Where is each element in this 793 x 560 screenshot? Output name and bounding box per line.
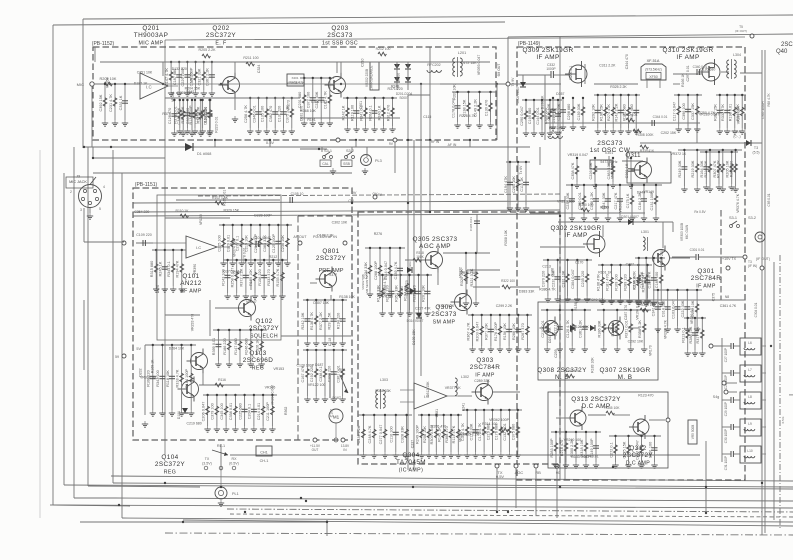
- resistor R102: [215, 201, 223, 205]
- capacitor: [251, 409, 257, 411]
- svg-text:C107: C107: [330, 409, 334, 417]
- svg-text:C292 10K: C292 10K: [628, 340, 644, 344]
- ground: [406, 310, 412, 316]
- resistor: [570, 324, 574, 332]
- junction: [456, 91, 458, 93]
- svg-text:R345 100: R345 100: [641, 303, 656, 307]
- svg-text:C236 10K: C236 10K: [281, 235, 285, 252]
- svg-text:(5.5): (5.5): [753, 151, 760, 155]
- wire rail: [246, 97, 296, 99]
- svg-text:R156 10K: R156 10K: [503, 323, 507, 340]
- junction: [696, 94, 698, 96]
- wire AF in: [136, 242, 153, 244]
- resistor: [193, 110, 197, 118]
- svg-text:D305 IS007: D305 IS007: [516, 86, 520, 103]
- diode D202: [405, 64, 411, 69]
- svg-text:C287 470: C287 470: [624, 305, 628, 320]
- diode D314: [416, 313, 422, 318]
- wire: [104, 84, 106, 120]
- svg-text:R211 100: R211 100: [243, 56, 258, 60]
- ground: [304, 340, 310, 346]
- ground: [732, 128, 738, 134]
- resistor: [630, 196, 634, 204]
- svg-text:C29 100P: C29 100P: [724, 402, 728, 416]
- wire: [522, 75, 524, 82]
- connector J3 MIC JACK: [66, 175, 105, 213]
- junction: [718, 151, 720, 153]
- ground: [353, 126, 359, 132]
- ground: [633, 128, 639, 134]
- capacitor: [593, 199, 599, 201]
- resistor: [575, 166, 579, 174]
- diode D304: [410, 288, 415, 294]
- resistor: [169, 72, 173, 80]
- svg-text:R375: R375: [162, 112, 170, 116]
- junction: [595, 184, 597, 186]
- resistor: [224, 406, 228, 414]
- svg-text:1st SSB OSC: 1st SSB OSC: [322, 40, 358, 46]
- ground: [724, 128, 730, 134]
- junction: [407, 202, 409, 204]
- ground: [569, 346, 575, 352]
- svg-text:C135 100: C135 100: [261, 106, 265, 122]
- transistor Q103b: [178, 377, 199, 402]
- svg-text:D312 15K: D312 15K: [426, 381, 430, 397]
- ground: [599, 298, 605, 304]
- resistor: [181, 111, 185, 119]
- svg-text:C302 10K: C302 10K: [332, 221, 348, 225]
- svg-text:C382 470: C382 470: [269, 106, 273, 122]
- resistor: [637, 277, 641, 285]
- junction: [499, 314, 501, 316]
- resistor: [474, 272, 478, 280]
- transformer L201: [453, 57, 463, 77]
- wire: [458, 395, 472, 397]
- ground: [545, 296, 551, 302]
- terminal AF: [122, 241, 126, 245]
- svg-text:R219 33K: R219 33K: [691, 160, 695, 177]
- wire: [562, 98, 564, 124]
- wire coil column to bus: [705, 441, 707, 513]
- svg-text:(0.5V): (0.5V): [229, 461, 239, 465]
- junction: [465, 252, 467, 254]
- junction: [355, 97, 357, 99]
- ground: [626, 298, 632, 304]
- junction: [124, 83, 126, 85]
- resistor: [194, 72, 198, 80]
- svg-text:AF IN: AF IN: [448, 143, 457, 147]
- wire: [472, 315, 474, 346]
- resistor: [261, 406, 265, 414]
- junction: [245, 259, 247, 261]
- svg-text:R320: R320: [400, 286, 404, 294]
- svg-text:C139 33K: C139 33K: [577, 103, 581, 120]
- svg-text:R69 4.7K: R69 4.7K: [767, 92, 771, 106]
- junction: [274, 97, 276, 99]
- ground: [339, 340, 345, 346]
- wire: [218, 61, 260, 63]
- wire: [620, 265, 622, 298]
- svg-text:SM AMP: SM AMP: [433, 319, 456, 325]
- resistor: [640, 445, 644, 453]
- wire left: [83, 300, 85, 370]
- svg-text:C199 680: C199 680: [528, 108, 532, 124]
- resistor: [286, 238, 290, 246]
- wire Q301 collector: [662, 222, 664, 248]
- wire: [721, 71, 729, 73]
- svg-text:C194 47K: C194 47K: [504, 176, 508, 193]
- svg-text:CH1: CH1: [260, 451, 268, 455]
- svg-text:S3-2: S3-2: [748, 216, 756, 220]
- junction: [263, 259, 265, 261]
- svg-text:C331 1K: C331 1K: [119, 95, 123, 110]
- capacitor: [681, 167, 687, 169]
- svg-text:C218: C218: [328, 338, 332, 346]
- junction: [417, 274, 419, 276]
- resistor: [480, 326, 484, 334]
- svg-text:S3-1: S3-1: [324, 149, 332, 153]
- capacitor C340: [697, 69, 699, 75]
- junction: [575, 431, 577, 433]
- junction: [500, 409, 502, 411]
- label Q308: [537, 367, 587, 381]
- svg-text:VR155: VR155: [382, 294, 393, 298]
- ground: [628, 182, 634, 188]
- ground: [204, 426, 210, 432]
- resistor: [611, 107, 615, 115]
- wire y173: [93, 172, 352, 174]
- ground: [199, 128, 205, 134]
- ground: [389, 126, 395, 132]
- junction: [471, 314, 473, 316]
- svg-text:R164 100P: R164 100P: [185, 369, 189, 388]
- svg-text:D188 2.2K: D188 2.2K: [317, 234, 334, 238]
- junction: [734, 94, 736, 96]
- ground: [433, 452, 439, 458]
- wire rail: [684, 317, 706, 319]
- wire: [236, 260, 238, 293]
- ground: [415, 310, 421, 316]
- svg-text:D301 IS007: D301 IS007: [621, 215, 639, 219]
- wire left bus E: [87, 147, 89, 486]
- wire y213: [530, 212, 645, 214]
- wire rail: [551, 431, 601, 433]
- ground switch: [330, 168, 336, 174]
- svg-text:C210 0.01: C210 0.01: [541, 320, 545, 338]
- wire: [342, 350, 344, 396]
- wire: [234, 98, 236, 110]
- svg-text:R318 4.7K: R318 4.7K: [175, 369, 179, 387]
- capacitor: [488, 329, 494, 331]
- relay RL-4: [330, 368, 348, 398]
- wire: [576, 260, 578, 296]
- svg-text:R147 680: R147 680: [234, 338, 238, 354]
- wire center vertical C: [420, 95, 422, 376]
- svg-text:C361 2.2K: C361 2.2K: [206, 68, 210, 86]
- svg-text:R329 15K: R329 15K: [224, 209, 240, 213]
- svg-text:D120 680: D120 680: [700, 67, 715, 71]
- transistor Q306: [451, 290, 472, 315]
- lamp PL-3: [361, 155, 382, 166]
- wire center vertical A: [407, 95, 409, 470]
- capacitor: [605, 199, 611, 201]
- wire: [701, 318, 703, 350]
- wire: [719, 95, 721, 128]
- svg-text:C301 0.01: C301 0.01: [690, 248, 705, 252]
- junction: [250, 329, 252, 331]
- wire: [283, 98, 285, 128]
- svg-text:D251 47K: D251 47K: [548, 327, 552, 343]
- ground: [582, 346, 588, 352]
- svg-text:5V: 5V: [136, 347, 141, 351]
- wire: [734, 426, 740, 428]
- junction: [646, 264, 648, 266]
- svg-text:90: 90: [556, 470, 561, 475]
- junction on bus: [496, 511, 498, 513]
- ground: [707, 186, 713, 192]
- wire left bus B2: [73, 147, 75, 498]
- svg-text:R371 10K: R371 10K: [485, 323, 489, 340]
- ground: [515, 205, 521, 211]
- junction: [653, 257, 655, 259]
- ground: [258, 361, 264, 367]
- wire: [234, 395, 236, 426]
- ground: [261, 293, 267, 299]
- capacitor: [717, 110, 723, 112]
- svg-text:D206 0.1: D206 0.1: [569, 66, 573, 80]
- svg-text:R196 15K: R196 15K: [599, 104, 603, 121]
- resistor: [302, 95, 306, 103]
- svg-text:R377 2.2K: R377 2.2K: [319, 312, 323, 330]
- svg-text:R326 1K: R326 1K: [255, 339, 259, 354]
- wire: [437, 270, 439, 285]
- junction on bus: [182, 521, 184, 523]
- wire drop 90: [556, 468, 558, 518]
- resistor: [249, 341, 253, 349]
- svg-text:T3: T3: [754, 146, 758, 150]
- svg-text:R155 4.7K: R155 4.7K: [276, 268, 280, 286]
- resistor: [524, 111, 528, 119]
- ground: [192, 128, 198, 134]
- label Q305: [413, 236, 458, 250]
- label Q103: [243, 350, 274, 371]
- wire bottom bus D: [122, 518, 793, 522]
- ground: [641, 215, 647, 221]
- ground: [651, 462, 657, 468]
- wire top-right frame: [508, 34, 793, 37]
- ground: [275, 260, 281, 266]
- svg-text:Q203: Q203: [331, 25, 348, 32]
- wire: [145, 344, 195, 346]
- svg-text:C131 220: C131 220: [277, 106, 281, 122]
- junction: [630, 157, 632, 159]
- junction: [239, 329, 241, 331]
- svg-text:Q307 2SK19GR: Q307 2SK19GR: [600, 367, 651, 374]
- label Q307: [600, 367, 651, 381]
- svg-text:R335 470: R335 470: [412, 285, 416, 301]
- terminal 59: [122, 354, 126, 358]
- wire: [678, 95, 680, 126]
- svg-text:L304: L304: [733, 53, 741, 57]
- ground: [313, 396, 319, 402]
- junction: [173, 99, 175, 101]
- svg-text:C337 15K: C337 15K: [691, 103, 695, 120]
- svg-text:C321 33K: C321 33K: [198, 68, 202, 85]
- junction: [507, 511, 509, 513]
- wire: [481, 315, 483, 346]
- ground: [555, 296, 561, 302]
- svg-text:C361 4.7K: C361 4.7K: [720, 304, 737, 308]
- svg-text:100K: 100K: [416, 255, 424, 259]
- transistor Q313: [566, 406, 586, 430]
- resistor: [581, 107, 585, 115]
- svg-text:C225 100: C225 100: [217, 235, 221, 251]
- junction: [243, 394, 245, 396]
- capacitor C301: [696, 254, 698, 260]
- ground: [676, 126, 682, 132]
- wire: [228, 330, 230, 361]
- wire: [540, 246, 585, 248]
- ground: [636, 300, 642, 306]
- wire mic drop: [91, 86, 93, 147]
- box DC amp section: [548, 392, 668, 468]
- wire right-center vertical 2: [564, 196, 566, 480]
- wire: [186, 100, 188, 128]
- resistor R320: [405, 283, 409, 291]
- ground: [605, 215, 611, 221]
- resistor: [516, 427, 520, 435]
- ground: [581, 215, 587, 221]
- resistor: [383, 429, 387, 437]
- junction on signal path: [220, 83, 222, 85]
- wire: [392, 98, 394, 126]
- diode D203: [394, 77, 400, 82]
- capacitor: [393, 432, 399, 434]
- svg-text:R291 15K: R291 15K: [328, 312, 332, 329]
- ground: [595, 128, 601, 134]
- crystal X201: [287, 74, 304, 86]
- junction: [104, 83, 106, 85]
- wire squelch box bottom: [281, 335, 351, 337]
- junction: [687, 317, 689, 319]
- label Q202: [206, 25, 236, 46]
- junction: [259, 224, 261, 226]
- svg-text:C277 0.047: C277 0.047: [379, 425, 383, 445]
- svg-text:R204 15K: R204 15K: [185, 86, 201, 90]
- wire left bus C: [112, 150, 114, 483]
- svg-text:R123 470: R123 470: [638, 393, 653, 397]
- wire: [612, 95, 614, 128]
- wire: [565, 432, 567, 462]
- wire: [554, 74, 570, 76]
- svg-text:VR240 100: VR240 100: [564, 438, 582, 442]
- ground: [270, 293, 276, 299]
- svg-text:D383 33K: D383 33K: [519, 290, 535, 294]
- wire: [713, 345, 722, 347]
- ground: [473, 300, 479, 306]
- wire rail: [594, 94, 640, 96]
- svg-text:R176 100P: R176 100P: [494, 322, 498, 341]
- wire y218: [165, 217, 230, 219]
- ground: [279, 293, 285, 299]
- wire: [546, 310, 548, 346]
- wire: [379, 248, 381, 291]
- wire: [88, 486, 200, 487]
- svg-text:VR291 10K: VR291 10K: [736, 106, 740, 125]
- wire middle bus 3: [133, 214, 560, 216]
- ground: [243, 293, 249, 299]
- wire: [170, 62, 172, 90]
- svg-text:AN212: AN212: [180, 280, 202, 287]
- junction: [346, 97, 348, 99]
- svg-text:R101 1K: R101 1K: [598, 271, 612, 275]
- capacitor: [593, 446, 599, 448]
- wire: [186, 62, 188, 90]
- ground: [230, 260, 236, 266]
- wire: [191, 100, 193, 130]
- junction: [726, 94, 728, 96]
- wire center vertical D: [429, 47, 431, 212]
- junction: [405, 414, 407, 416]
- svg-text:L8: L8: [748, 395, 752, 399]
- capacitor: [407, 291, 413, 293]
- resistor: [554, 443, 558, 451]
- svg-text:R166 1K: R166 1K: [681, 73, 685, 87]
- svg-text:R116: R116: [218, 378, 226, 382]
- junction: [457, 414, 459, 416]
- wire: [509, 162, 511, 205]
- ground: [257, 260, 263, 266]
- board center outline: [358, 212, 560, 464]
- capacitor: [169, 376, 175, 378]
- junction: [450, 414, 452, 416]
- svg-text:C301 0.01: C301 0.01: [336, 365, 340, 383]
- resistor: [249, 238, 253, 246]
- ground: [206, 130, 212, 136]
- terminal 13.8V IN: [341, 438, 345, 442]
- wire y143: [640, 142, 762, 144]
- wire rail: [452, 91, 496, 93]
- svg-text:C331 10K: C331 10K: [561, 270, 565, 287]
- svg-text:IF AMP: IF AMP: [475, 372, 495, 378]
- wire drop: [214, 140, 216, 147]
- wire: [300, 148, 327, 150]
- capacitor: [652, 448, 658, 450]
- wire rail: [303, 349, 347, 351]
- wire: [223, 225, 225, 260]
- resistor R318: [413, 258, 421, 262]
- junction: [271, 394, 273, 396]
- transistor Q203: [325, 73, 346, 98]
- junction: [616, 309, 618, 311]
- resistor: [627, 445, 631, 453]
- junction: [667, 289, 669, 291]
- svg-text:C247 0.047: C247 0.047: [635, 440, 639, 460]
- transistor Q202: [219, 73, 240, 98]
- capacitor: [455, 106, 461, 108]
- svg-text:2SC696D: 2SC696D: [243, 357, 274, 364]
- wire: [161, 345, 163, 410]
- svg-text:R208 10K: R208 10K: [423, 426, 427, 443]
- svg-text:C345 0.01: C345 0.01: [469, 217, 473, 231]
- ground: [377, 291, 383, 297]
- resistor: [314, 369, 318, 377]
- resistor: [695, 304, 699, 312]
- wire: [268, 225, 270, 260]
- junction: [291, 97, 293, 99]
- wire: [467, 269, 500, 271]
- relay RL-1: [202, 444, 239, 470]
